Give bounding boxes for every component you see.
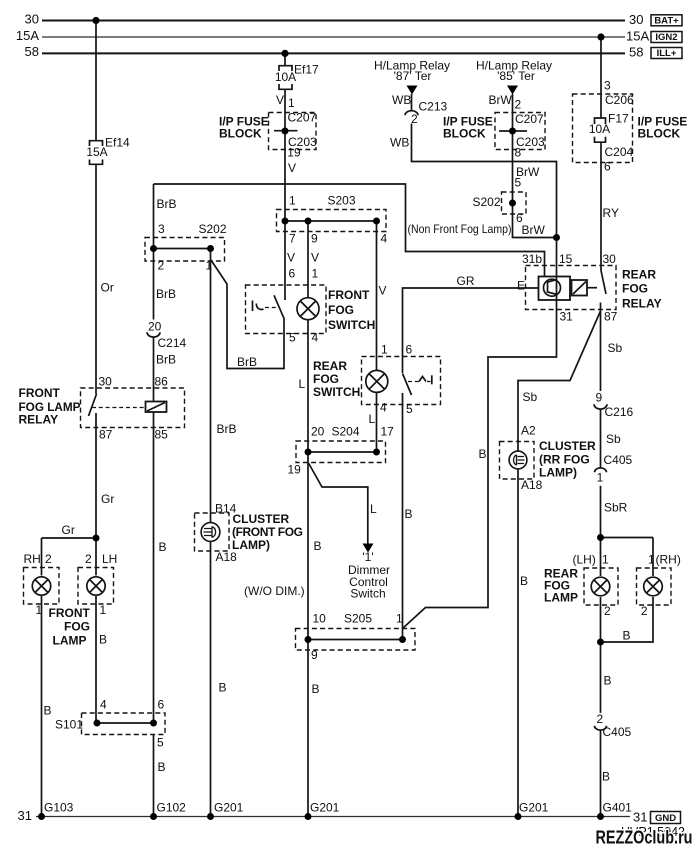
svg-text:V: V: [379, 284, 387, 298]
svg-text:C207: C207: [288, 111, 317, 125]
svg-text:LAMP: LAMP: [544, 591, 578, 605]
svg-text:S203: S203: [328, 194, 356, 208]
svg-text:BrB: BrB: [237, 355, 257, 369]
svg-text:1: 1: [648, 553, 655, 567]
svg-text:C204: C204: [605, 145, 634, 159]
svg-text:1: 1: [100, 603, 107, 617]
svg-text:'1': '1': [362, 550, 373, 564]
svg-text:15A: 15A: [626, 29, 649, 44]
svg-text:S204: S204: [332, 425, 360, 439]
svg-text:FRONT: FRONT: [19, 386, 61, 400]
svg-text:G201: G201: [214, 801, 244, 815]
svg-text:CLUSTER: CLUSTER: [539, 439, 596, 453]
svg-text:ILL+: ILL+: [657, 48, 677, 59]
svg-text:30: 30: [99, 375, 113, 389]
svg-text:1: 1: [602, 553, 609, 567]
svg-text:S101: S101: [55, 718, 83, 732]
svg-text:87: 87: [99, 428, 113, 442]
svg-text:85: 85: [155, 428, 169, 442]
svg-text:BrB: BrB: [156, 287, 176, 301]
svg-text:BLOCK: BLOCK: [443, 127, 486, 141]
svg-text:SWITCH: SWITCH: [313, 385, 360, 399]
svg-text:C405: C405: [603, 725, 632, 739]
svg-text:5: 5: [289, 331, 296, 345]
svg-text:BLOCK: BLOCK: [219, 127, 262, 141]
svg-text:FRONT: FRONT: [328, 288, 370, 302]
svg-text:30: 30: [629, 12, 643, 27]
svg-text:2: 2: [411, 112, 418, 126]
svg-text:RELAY: RELAY: [19, 413, 59, 427]
svg-text:1: 1: [312, 267, 319, 281]
svg-text:S205: S205: [344, 612, 372, 626]
svg-text:RELAY: RELAY: [622, 297, 662, 311]
svg-text:V: V: [276, 93, 284, 107]
svg-text:BrB: BrB: [157, 197, 177, 211]
svg-text:(W/O DIM.): (W/O DIM.): [244, 584, 305, 598]
svg-text:B: B: [312, 682, 320, 696]
svg-text:2: 2: [604, 604, 611, 618]
svg-text:31: 31: [18, 808, 32, 823]
svg-text:6: 6: [289, 267, 296, 281]
svg-text:Gr: Gr: [101, 492, 114, 506]
svg-text:REZZOclub.ru: REZZOclub.ru: [596, 828, 693, 848]
svg-text:BLOCK: BLOCK: [638, 127, 681, 141]
svg-text:RH: RH: [24, 552, 41, 566]
svg-text:A18: A18: [216, 550, 238, 564]
svg-text:B: B: [158, 760, 166, 774]
svg-text:(Non Front Fog Lamp): (Non Front Fog Lamp): [408, 222, 512, 236]
svg-text:(RR FOG: (RR FOG: [539, 453, 590, 467]
svg-text:FOG: FOG: [64, 620, 90, 634]
svg-text:C214: C214: [158, 336, 187, 350]
svg-text:(FRONT FOG: (FRONT FOG: [232, 525, 303, 539]
svg-text:G103: G103: [44, 801, 74, 815]
svg-text:2: 2: [158, 259, 165, 273]
svg-text:C213: C213: [419, 100, 448, 114]
svg-text:7: 7: [289, 232, 296, 246]
svg-text:Ef14: Ef14: [105, 136, 130, 150]
svg-text:FOG: FOG: [328, 303, 354, 317]
svg-text:20: 20: [311, 425, 325, 439]
svg-text:IGN2: IGN2: [655, 32, 677, 43]
svg-text:3: 3: [604, 79, 611, 93]
svg-text:1: 1: [206, 259, 213, 273]
svg-text:E: E: [517, 279, 525, 293]
svg-text:C405: C405: [604, 453, 633, 467]
svg-text:B: B: [479, 447, 487, 461]
svg-text:58: 58: [629, 45, 643, 60]
svg-text:5: 5: [406, 402, 413, 416]
svg-text:4: 4: [100, 698, 107, 712]
svg-text:31: 31: [633, 810, 647, 825]
svg-text:19: 19: [287, 146, 301, 160]
svg-text:L: L: [369, 412, 376, 426]
svg-text:S202: S202: [199, 222, 227, 236]
svg-text:L: L: [370, 502, 377, 516]
svg-text:30: 30: [25, 12, 39, 27]
svg-text:86: 86: [155, 375, 169, 389]
svg-text:3: 3: [158, 222, 165, 236]
svg-text:G401: G401: [603, 801, 633, 815]
svg-text:LAMP): LAMP): [232, 538, 270, 552]
svg-text:(RH): (RH): [656, 553, 681, 567]
svg-text:GND: GND: [655, 813, 676, 824]
svg-text:15A: 15A: [16, 28, 39, 43]
svg-text:19: 19: [288, 463, 302, 477]
svg-text:FOG: FOG: [313, 372, 339, 386]
svg-text:Ef17: Ef17: [294, 63, 319, 77]
svg-text:LAMP): LAMP): [539, 466, 577, 480]
svg-text:9: 9: [596, 391, 603, 405]
svg-text:1: 1: [289, 194, 296, 208]
svg-text:5: 5: [515, 176, 522, 190]
svg-text:G201: G201: [310, 801, 340, 815]
svg-text:15: 15: [559, 252, 573, 266]
svg-text:(LH): (LH): [573, 553, 596, 567]
svg-text:2: 2: [641, 604, 648, 618]
svg-text:'87' Ter: '87' Ter: [394, 69, 432, 83]
svg-text:B: B: [602, 770, 610, 784]
svg-text:6: 6: [158, 698, 165, 712]
svg-text:B: B: [520, 574, 528, 588]
svg-text:SWITCH: SWITCH: [328, 318, 375, 332]
svg-text:6: 6: [406, 343, 413, 357]
svg-text:2: 2: [597, 712, 604, 726]
svg-text:2: 2: [515, 98, 522, 112]
svg-text:31b: 31b: [522, 252, 542, 266]
svg-text:87: 87: [604, 310, 618, 324]
svg-text:BAT+: BAT+: [654, 16, 679, 27]
svg-text:REAR: REAR: [313, 359, 347, 373]
svg-text:B: B: [44, 704, 52, 718]
svg-text:17: 17: [381, 425, 395, 439]
svg-text:L: L: [299, 377, 306, 391]
svg-text:B: B: [314, 539, 322, 553]
svg-text:9: 9: [311, 648, 318, 662]
svg-text:1: 1: [36, 603, 43, 617]
svg-text:S202: S202: [473, 195, 501, 209]
svg-text:BrW: BrW: [522, 223, 546, 237]
svg-text:9: 9: [311, 232, 318, 246]
svg-text:5: 5: [157, 736, 164, 750]
svg-text:1: 1: [597, 471, 604, 485]
svg-text:A2: A2: [521, 424, 536, 438]
svg-text:4: 4: [381, 232, 388, 246]
svg-text:Sb: Sb: [523, 390, 538, 404]
svg-text:F17: F17: [608, 112, 629, 126]
svg-text:1: 1: [288, 96, 295, 110]
svg-text:8: 8: [515, 146, 522, 160]
svg-text:BrW: BrW: [489, 93, 513, 107]
svg-text:B: B: [219, 681, 227, 695]
svg-text:G201: G201: [519, 801, 549, 815]
svg-text:A18: A18: [521, 478, 543, 492]
svg-text:20: 20: [148, 320, 162, 334]
svg-text:BrB: BrB: [156, 353, 176, 367]
svg-text:10A: 10A: [589, 122, 610, 136]
svg-text:31: 31: [560, 310, 574, 324]
svg-text:1: 1: [396, 612, 403, 626]
svg-text:4: 4: [380, 401, 387, 415]
svg-text:B: B: [604, 674, 612, 688]
svg-text:C206: C206: [605, 93, 634, 107]
svg-text:CLUSTER: CLUSTER: [233, 512, 290, 526]
svg-text:30: 30: [603, 252, 617, 266]
svg-text:2: 2: [45, 552, 52, 566]
svg-text:Gr: Gr: [62, 523, 75, 537]
svg-text:C216: C216: [605, 405, 634, 419]
svg-text:RY: RY: [603, 206, 619, 220]
svg-text:6: 6: [604, 160, 611, 174]
svg-text:V: V: [288, 161, 296, 175]
svg-text:WB: WB: [392, 93, 411, 107]
svg-text:G102: G102: [157, 801, 187, 815]
svg-text:BrB: BrB: [217, 422, 237, 436]
svg-text:FOG: FOG: [622, 282, 648, 296]
svg-text:58: 58: [25, 44, 39, 59]
svg-text:B: B: [99, 633, 107, 647]
svg-text:1: 1: [381, 343, 388, 357]
svg-text:Switch: Switch: [350, 587, 385, 601]
svg-text:V: V: [311, 251, 319, 265]
svg-text:10A: 10A: [275, 70, 296, 84]
svg-text:FRONT: FRONT: [49, 606, 91, 620]
svg-text:B: B: [405, 507, 413, 521]
svg-text:Or: Or: [101, 281, 114, 295]
svg-text:SbR: SbR: [604, 501, 628, 515]
svg-text:V: V: [287, 251, 295, 265]
svg-text:10: 10: [313, 612, 327, 626]
svg-text:Sb: Sb: [606, 432, 621, 446]
svg-text:Sb: Sb: [608, 341, 623, 355]
svg-text:WB: WB: [390, 136, 409, 150]
svg-text:'85' Ter: '85' Ter: [497, 69, 535, 83]
svg-text:4: 4: [312, 331, 319, 345]
svg-text:LH: LH: [102, 552, 117, 566]
svg-text:LAMP: LAMP: [53, 634, 87, 648]
svg-text:B: B: [623, 629, 631, 643]
svg-text:2: 2: [85, 552, 92, 566]
svg-text:C207: C207: [515, 112, 544, 126]
svg-text:B: B: [159, 540, 167, 554]
svg-text:REAR: REAR: [622, 268, 656, 282]
svg-text:GR: GR: [457, 274, 475, 288]
